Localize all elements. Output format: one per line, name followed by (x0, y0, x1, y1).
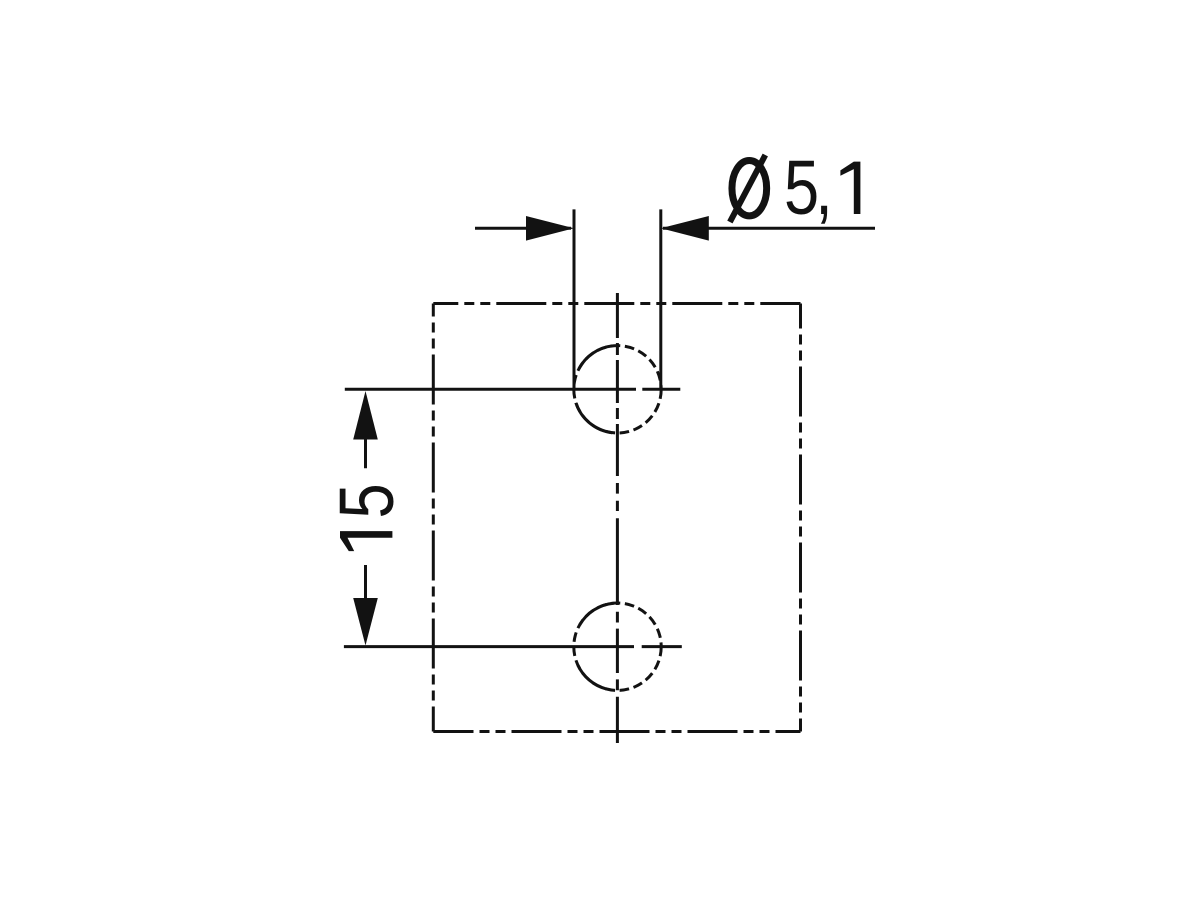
dimension line 15 (vertical, broken by text) (364, 439, 367, 599)
dimension line diameter right tail (663, 227, 875, 230)
diameter symbol ellipse (732, 161, 767, 216)
svg-text:5: 5 (323, 483, 409, 518)
svg-text:5: 5 (784, 144, 819, 230)
plate outline top edge (phantom line) (433, 302, 800, 305)
vertical centerline through both holes (616, 293, 619, 743)
arrowhead right (diameter dim left) (526, 216, 574, 241)
hole H2 long arc lower-left (578, 665, 606, 689)
arrowhead down (15 dim bottom) (353, 598, 378, 646)
dimension line diameter left tail (475, 227, 571, 230)
digit 1 of 5,1 (custom glyph) (840, 162, 860, 214)
plate outline right edge (phantom line) (799, 304, 802, 732)
extension line left for diameter dim (573, 209, 576, 389)
svg-text:,: , (815, 144, 833, 230)
hole H2 (bottom) dashed circle (574, 603, 661, 690)
hole H1 long arc upper-left (579, 346, 612, 369)
horizontal centerline through hole H1 / extension line for 15 dim (345, 388, 681, 391)
digit 1 of 15 (custom glyph, rotated) (340, 531, 392, 551)
dimension text 15 (rotated) (323, 483, 409, 518)
hole H1 (top) dashed circle (574, 346, 661, 433)
dimension text 5,1 (784, 144, 833, 230)
hole H1 long arc lower-left (576, 403, 612, 433)
hole H2 long arc upper-left (580, 603, 614, 625)
extension line right for diameter dim (659, 209, 662, 389)
horizontal centerline through hole H2 / extension line for 15 dim (344, 645, 682, 648)
plate outline bottom edge (phantom line) (433, 730, 800, 733)
arrowhead left (diameter dim right) (661, 216, 709, 241)
plate outline left edge (phantom line) (432, 304, 435, 732)
arrowhead up (15 dim top) (353, 391, 378, 440)
diameter symbol slash (730, 155, 765, 222)
